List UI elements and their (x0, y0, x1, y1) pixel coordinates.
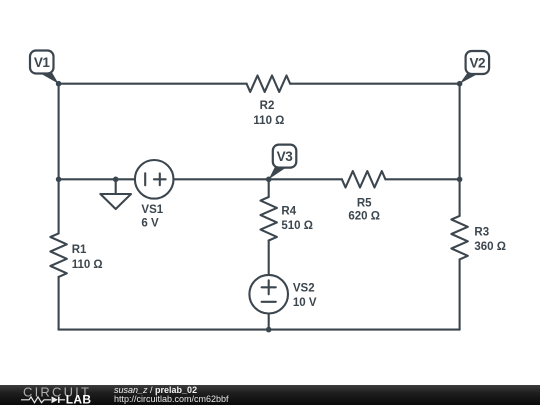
junction node V3 (266, 177, 272, 183)
junction node V1 (56, 81, 62, 87)
wire VS2 to bottom rail (268, 314, 270, 330)
junction bottom VS2 (266, 327, 272, 333)
ground stub wire (115, 179, 117, 194)
wire right rail lower (459, 259, 461, 329)
junction node V2 (457, 81, 463, 87)
node V1 pointer (40, 73, 59, 84)
resistor R5 (342, 171, 386, 187)
VS2 minus bar (262, 301, 276, 303)
wire middle rail left of VS1 (59, 178, 135, 180)
node V1 box (30, 51, 54, 74)
footer bar (0, 385, 540, 405)
svg-text:http://circuitlab.com/cm62bbf: http://circuitlab.com/cm62bbf (114, 394, 229, 404)
wire R4 to VS2 (268, 241, 270, 275)
node V2 box (466, 51, 490, 74)
node V3 pointer (269, 168, 287, 180)
logo diode (52, 396, 59, 403)
node V2 pointer (460, 73, 480, 84)
node V3 box (273, 145, 297, 168)
resistor R1 (50, 233, 66, 277)
svg-text:LAB: LAB (66, 392, 92, 405)
wire top rail right of R2 (290, 83, 460, 85)
VS1 plus (154, 173, 166, 185)
resistor R2 (247, 76, 291, 92)
junction left-middle (56, 177, 62, 183)
wire top rail left of R2 (59, 83, 247, 85)
wire bottom rail (59, 329, 460, 331)
wire middle rail right of R5 (385, 178, 459, 180)
wire middle rail VS1 to R5 (174, 178, 342, 180)
wire V3 stub to R4 (268, 179, 270, 197)
logo resistor zigzag (21, 397, 51, 403)
resistor R3 (451, 216, 467, 260)
wire right rail upper (459, 84, 461, 216)
VS2 plus (262, 280, 276, 294)
resistor R4 (261, 197, 277, 241)
voltage source VS1 circle (135, 160, 174, 199)
junction right-middle (457, 177, 463, 183)
ground (100, 194, 131, 209)
wire left rail upper (58, 84, 60, 234)
VS1 minus bar (144, 173, 146, 185)
junction ground (113, 177, 119, 183)
wire left rail lower (58, 277, 60, 330)
voltage source VS2 circle (249, 275, 288, 314)
